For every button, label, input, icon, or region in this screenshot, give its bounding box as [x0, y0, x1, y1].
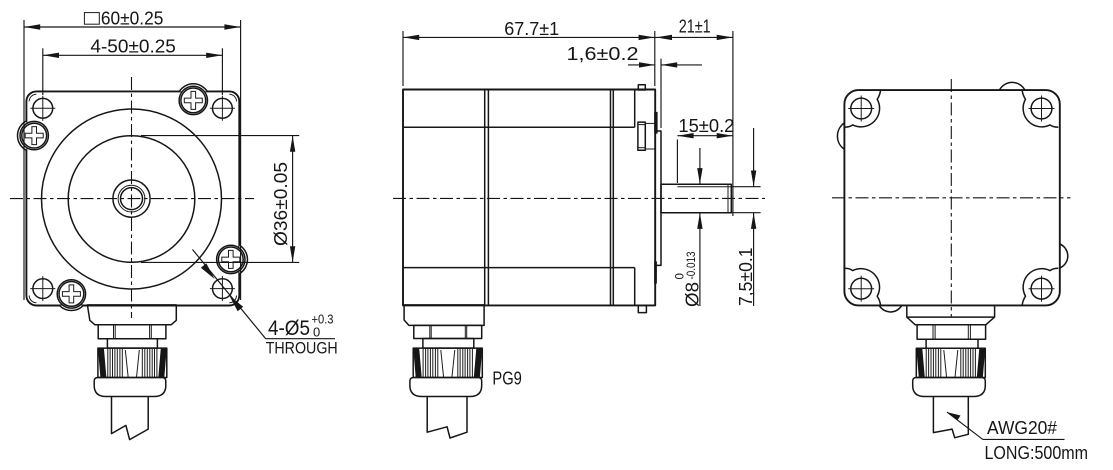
wire (front) — [112, 397, 149, 440]
gland neck steps (rear) — [906, 305, 908, 317]
corner chamfer inner arcs — [29, 94, 236, 303]
shaft end chamfer line — [727, 184, 729, 212]
dimension square60 line — [24, 26, 241, 28]
gland hex collar (side) — [414, 325, 482, 338]
gland flange (rear) — [907, 317, 995, 325]
wire leader arrowhead — [947, 412, 961, 420]
shaft bore circle — [121, 188, 143, 210]
shaft flat line — [677, 186, 731, 188]
rear body square — [844, 90, 1059, 305]
screw top-right — [179, 84, 207, 115]
horizontal centerline — [10, 198, 254, 200]
screw left — [18, 121, 49, 150]
gland small collar (side) — [423, 339, 474, 349]
shaft hub circle — [113, 180, 150, 217]
dia8 tolerance text rotated — [675, 252, 703, 308]
square symbol — [84, 13, 99, 25]
dimension 7,5 arrow lines — [753, 128, 755, 187]
svg-text:21±1: 21±1 — [679, 16, 711, 36]
cable gland flange (side) — [404, 305, 484, 326]
gland dome (rear) — [913, 378, 986, 397]
dimension 15 line — [677, 135, 733, 137]
corner hole bottom-left — [30, 276, 55, 301]
dia8 dimension arrow lines — [699, 148, 701, 184]
gland nut (rear) — [916, 348, 985, 377]
screw bottom-left — [57, 280, 85, 311]
gland dome (front) — [94, 378, 166, 397]
vertical centerline — [950, 79, 952, 317]
svg-text:4-Ø5: 4-Ø5 — [268, 317, 310, 340]
dimension 15 extension line — [676, 140, 678, 184]
black bar upper on flange face — [654, 112, 657, 134]
svg-text:0: 0 — [675, 273, 687, 279]
svg-text:-0.013: -0.013 — [686, 252, 698, 280]
svg-text:PG9: PG9 — [492, 368, 522, 389]
bolt bump bottom edge — [879, 305, 902, 312]
corner pad bottom-left — [844, 268, 880, 305]
svg-text:Ø36±0.05: Ø36±0.05 — [271, 162, 291, 246]
dimension 21 line — [655, 36, 733, 38]
rear hole top-right — [1029, 96, 1055, 122]
vertical centerline — [131, 77, 133, 318]
dia36 dimension extension lines — [141, 135, 299, 137]
motor front body square — [26, 91, 239, 305]
svg-text:7,5±0.1: 7,5±0.1 — [736, 248, 756, 307]
front bell corner verticals — [634, 90, 636, 128]
leader shelf line — [266, 338, 335, 340]
gland nut (side) — [413, 348, 482, 377]
svg-text:0: 0 — [313, 325, 320, 340]
bolt bump top edge — [999, 82, 1025, 90]
rear hole bottom-left — [848, 276, 874, 302]
dia36 dimension line — [292, 136, 294, 263]
shaft ring circle — [118, 185, 145, 212]
cable gland flange (front) — [87, 305, 176, 325]
svg-text:AWG20#: AWG20# — [987, 418, 1057, 438]
corner pad bottom-right — [1022, 268, 1058, 305]
pilot boss rectangle — [655, 131, 661, 265]
gland nut (front) — [98, 348, 167, 377]
svg-text:60±0.25: 60±0.25 — [101, 8, 163, 28]
dimension 1,6 extension line — [660, 59, 662, 128]
bolt bump right edge — [1060, 244, 1068, 268]
corner hole bottom-right — [210, 276, 235, 301]
front end bell joint double line — [610, 90, 612, 306]
screw right-bottom — [217, 245, 248, 274]
corner hole top-right — [210, 96, 235, 121]
svg-text:LONG:500mm: LONG:500mm — [985, 443, 1089, 463]
shaft — [661, 184, 731, 212]
wire leader line — [947, 412, 983, 439]
svg-text:67.7±1: 67.7±1 — [504, 19, 559, 39]
corner pad top-right — [1022, 90, 1058, 127]
leader line 4-dia5 — [193, 250, 266, 339]
motor body outline — [403, 90, 655, 306]
dimension 1,6 arrows — [628, 64, 655, 66]
shaft axis centerline — [393, 197, 765, 199]
wire (rear) — [933, 397, 968, 438]
top tab — [638, 85, 645, 90]
bottom tab — [638, 305, 646, 312]
leader arrowhead lower pointing up-left — [229, 295, 243, 311]
corner hole top-left — [30, 96, 55, 121]
chamfer edge line upper — [403, 126, 635, 128]
boss circle dia 36 — [68, 136, 195, 263]
outer pilot circle — [42, 109, 222, 289]
leader arrowhead upper pointing down-right — [201, 263, 215, 279]
dimension 4-50 extension lines — [42, 48, 44, 95]
bolt bump left edge — [837, 123, 844, 149]
svg-text:15±0.2: 15±0.2 — [678, 116, 734, 136]
chamfer edge line lower — [403, 267, 635, 269]
leader shelf line — [983, 438, 1065, 440]
shaft flat extension lines — [731, 186, 760, 188]
dimension 21 extension line — [732, 31, 734, 216]
gland small collar (front) — [107, 339, 157, 348]
gland hex collar (front) — [98, 325, 166, 339]
rear end bell joint double line — [484, 90, 486, 306]
svg-text:4-50±0.25: 4-50±0.25 — [90, 36, 175, 56]
horizontal centerline — [832, 197, 1071, 199]
gland dome (side) — [410, 378, 482, 397]
wire (side) — [427, 397, 467, 439]
dimension 67.7 extension lines — [402, 31, 404, 86]
rear hole bottom-right — [1029, 276, 1055, 302]
gland small collar (rear) — [926, 339, 978, 348]
svg-text:1,6±0.2: 1,6±0.2 — [567, 44, 639, 64]
corner pad top-left — [844, 90, 880, 127]
dimension 4-50 line — [43, 54, 223, 56]
svg-text:Ø8: Ø8 — [683, 282, 703, 307]
black bar lower on flange face — [654, 261, 657, 283]
svg-text:THROUGH: THROUGH — [266, 339, 338, 358]
dimension 67.7 line — [403, 36, 655, 38]
gland hex collar (rear) — [917, 325, 986, 340]
dimension square60 extension lines — [23, 20, 25, 300]
rear hole top-left — [848, 96, 874, 122]
connector block — [638, 122, 655, 150]
